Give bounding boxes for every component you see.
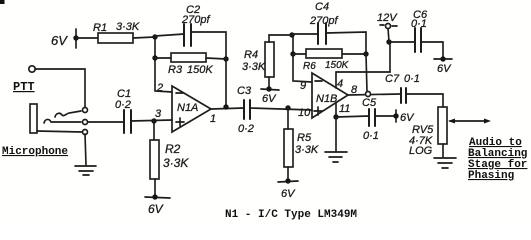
resistor R3: [171, 53, 206, 62]
switch contact blade (ring): [44, 119, 81, 123]
node pin3/R2 junction: [151, 118, 156, 123]
wire node A down to pin 2: [155, 37, 172, 92]
svg-text:150K: 150K: [187, 64, 213, 76]
supply rail pin4 to 12V: [336, 42, 390, 72]
ground (microphone): [75, 166, 96, 175]
resistor R1: [98, 33, 133, 43]
resistor R2: [150, 140, 159, 179]
svg-text:R6: R6: [303, 61, 316, 72]
svg-text:0·1: 0·1: [411, 18, 427, 30]
node R3 right junction: [223, 56, 228, 61]
svg-text:2: 2: [156, 82, 163, 94]
wire C4 left: [292, 33, 318, 35]
wire node to R3: [155, 57, 171, 59]
capacitor C2: [184, 24, 191, 46]
svg-text:R2: R2: [165, 142, 181, 156]
plus sign pin3: [176, 118, 184, 126]
svg-text:1: 1: [210, 113, 216, 125]
node R6 left: [290, 51, 295, 56]
op-amp N1B: [312, 73, 348, 118]
svg-text:3·3K: 3·3K: [163, 156, 189, 170]
node pin 11: [333, 114, 338, 119]
svg-text:R3: R3: [168, 64, 183, 76]
svg-text:C7: C7: [385, 73, 400, 85]
svg-text:R5: R5: [297, 132, 312, 144]
capacitor C4: [318, 23, 326, 44]
potentiometer RV5: [438, 107, 447, 144]
svg-text:270pf: 270pf: [309, 15, 338, 27]
wire C2 to feedback corner: [191, 32, 226, 59]
svg-text:3: 3: [155, 108, 162, 120]
wire pin11 node to C5: [336, 116, 369, 117]
ground (RV5): [434, 158, 456, 168]
resistor R6: [306, 49, 342, 58]
svg-text:R4: R4: [244, 49, 258, 61]
wire C1 to pin 3: [131, 120, 172, 121]
svg-text:0·1: 0·1: [404, 73, 420, 85]
wire node to R5: [287, 108, 289, 129]
wire R2 to 6V: [154, 179, 156, 197]
svg-text:10: 10: [298, 107, 311, 119]
contact circle middle: [83, 120, 88, 125]
node output N1B (open): [366, 92, 371, 97]
contact circle bottom: [83, 130, 88, 135]
resistor R4: [265, 42, 274, 77]
wiper arrow of RV5: [448, 119, 491, 124]
wire 6V terminal to R1: [77, 37, 98, 39]
microphone jack body: [30, 104, 37, 133]
label Audio to Balancing Stage for Phasing: [468, 137, 527, 182]
op-amp N1A: [172, 86, 211, 132]
plus sign pin10: [314, 107, 322, 115]
wire output N1B to C7: [348, 94, 401, 95]
wire C4 node down to R6 node: [292, 35, 294, 54]
wire 12V node to C6: [389, 41, 415, 43]
svg-text:4: 4: [337, 78, 343, 90]
wire 12V terminal: [388, 28, 389, 42]
capacitor C7: [401, 88, 406, 103]
node output N1A: [223, 104, 228, 109]
wire PTT to switch: [35, 69, 85, 107]
svg-text:6V: 6V: [262, 93, 277, 105]
wire node to pin 9: [293, 54, 312, 82]
svg-text:N1A: N1A: [177, 102, 198, 114]
node R3 left junction: [152, 55, 157, 60]
minus sign pin9: [315, 80, 322, 82]
svg-text:Microphone: Microphone: [2, 146, 68, 158]
svg-text:0·1: 0·1: [363, 130, 379, 142]
svg-text:3·3K: 3·3K: [295, 144, 319, 156]
wire C4 right to feedback vertical: [326, 32, 366, 54]
svg-text:0·2: 0·2: [115, 99, 131, 111]
svg-text:6V: 6V: [281, 188, 296, 200]
svg-text:3·3K: 3·3K: [242, 61, 266, 73]
svg-text:12V: 12V: [377, 12, 398, 24]
capacitor C5: [369, 109, 375, 126]
6V terminal (R2): [145, 194, 170, 199]
svg-text:LOG: LOG: [409, 145, 433, 157]
svg-text:3·3K: 3·3K: [116, 21, 140, 33]
6V supply terminal (left of R1): [73, 29, 78, 48]
svg-text:6V: 6V: [148, 202, 164, 216]
wire C5 to 6V: [375, 115, 396, 117]
6V terminal (C6): [434, 56, 452, 61]
node 12V junction: [386, 39, 391, 44]
wire pin11 to ground: [335, 117, 337, 151]
svg-text:Phasing: Phasing: [468, 170, 514, 182]
wire R1 to node A: [133, 37, 155, 38]
wire node to R6: [293, 53, 306, 55]
minus sign pin2: [176, 92, 183, 94]
capacitor C6: [415, 28, 421, 52]
node R4 top / C4 junction: [289, 32, 294, 37]
contact circle top: [83, 108, 88, 113]
svg-text:6V: 6V: [400, 112, 415, 124]
wire R4 to 6V: [268, 77, 270, 89]
6V terminal (R4): [261, 86, 279, 91]
wire R5 to 6V: [287, 167, 289, 180]
node A (R1/C2/pin2 junction): [152, 34, 157, 39]
pin 4 stub: [335, 72, 337, 88]
wire output N1A to C3: [211, 108, 244, 109]
wire RV5 to ground: [442, 144, 444, 157]
wire sleeve to ground node: [37, 131, 82, 132]
svg-text:N1B: N1B: [316, 93, 337, 105]
node R5 junction: [285, 105, 290, 110]
wire feedback vertical to output node: [225, 59, 227, 107]
ground (N1B): [325, 152, 347, 162]
PTT terminal circle: [29, 66, 35, 72]
6V terminal (C5): [393, 110, 398, 122]
svg-text:6V: 6V: [437, 63, 452, 75]
wire feedback to output circle: [366, 54, 367, 92]
capacitor C1: [124, 110, 131, 133]
svg-text:150K: 150K: [325, 60, 350, 71]
capacitor C3: [244, 100, 250, 119]
svg-text:6V: 6V: [51, 33, 68, 48]
wire R3 to feedback vertical: [206, 58, 226, 59]
wire R6 to output node: [342, 53, 366, 55]
wire C6 to 6V: [421, 42, 443, 58]
svg-text:C4: C4: [315, 1, 329, 13]
6V terminal (R5): [278, 178, 298, 183]
switch contact blade (tip): [55, 111, 81, 117]
wire C7 to RV5: [406, 94, 443, 107]
svg-text:N1 - I/C Type LM349M: N1 - I/C Type LM349M: [225, 209, 357, 221]
resistor R5: [284, 129, 293, 167]
wire node to R2: [153, 121, 155, 140]
pin 11 stub: [335, 103, 337, 117]
svg-text:9: 9: [300, 80, 306, 92]
svg-text:R1: R1: [93, 22, 107, 34]
svg-text:C3: C3: [237, 85, 252, 97]
svg-text:11: 11: [339, 103, 350, 115]
wire mic to C1: [88, 121, 124, 123]
svg-text:PTT: PTT: [13, 80, 35, 94]
scan artifact top-left corner: [0, 0, 5, 4]
wire C3 to pin 10: [250, 108, 312, 110]
svg-text:270pf: 270pf: [181, 14, 210, 26]
wire mic sleeve to ground: [85, 134, 86, 165]
wire R4 top: [269, 35, 292, 42]
svg-text:C5: C5: [362, 97, 377, 109]
wire node A to C2: [155, 34, 184, 36]
svg-text:0·2: 0·2: [238, 123, 254, 135]
node R6 right: [363, 51, 368, 56]
12V terminal: [380, 24, 397, 29]
